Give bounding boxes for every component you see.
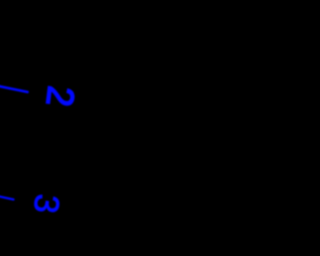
svg-text:3: 3 — [26, 192, 66, 215]
tick line for label 3 — [0, 196, 14, 199]
tick line for label 2 — [0, 86, 28, 92]
svg-text:2: 2 — [38, 84, 82, 109]
